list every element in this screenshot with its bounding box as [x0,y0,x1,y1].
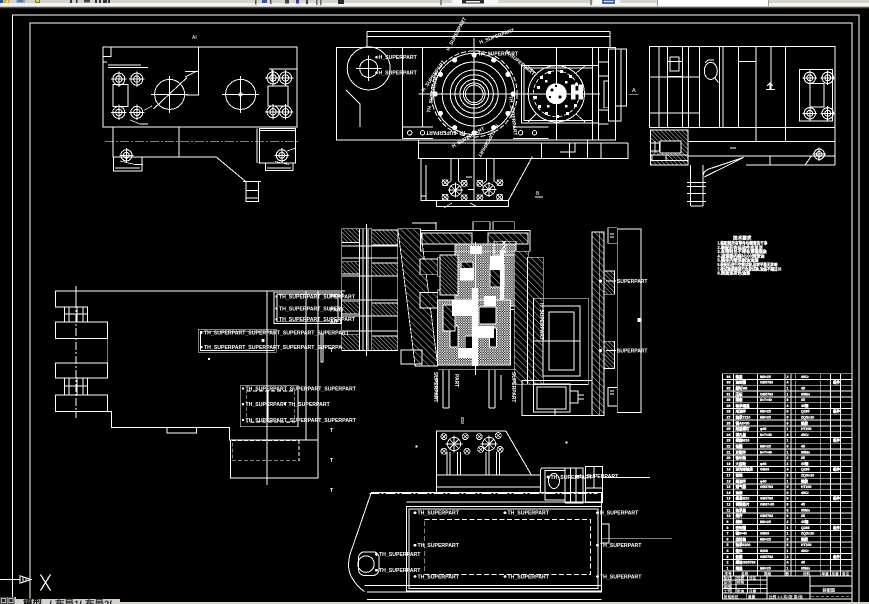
view C lower leg with fillet [687,157,744,206]
svg-text:/: / [109,600,112,604]
svg-text:AR T: AR T [330,320,343,326]
svg-text:M8×25: M8×25 [760,416,771,420]
svg-text:65Mn: 65Mn [801,508,810,512]
view C right bolt block [800,69,835,121]
view B central worm flange [419,38,531,150]
svg-text:大齿轮: 大齿轮 [736,461,747,466]
svg-text:1: 1 [787,566,789,570]
svg-text:H_SUPERPART: H_SUPERPART [580,474,619,480]
svg-text:40Cr: 40Cr [801,491,809,495]
view C: top-right side view [649,47,835,142]
bottom layout tab bar fragment [0,597,869,604]
svg-text:深沟球轴承: 深沟球轴承 [736,467,754,472]
svg-text:TH_SUPERPART: TH_SUPERPART [418,574,460,580]
svg-text:HT200: HT200 [801,543,812,547]
view B: top-middle gearbox top view [337,32,616,141]
svg-text:/: / [49,600,52,604]
toolbar icon fragments [0,0,3,3]
svg-text:数: 数 [785,571,790,576]
svg-text:8: 8 [787,508,789,512]
view E breather valve on top [494,241,516,255]
svg-text:1: 1 [787,392,789,396]
view D comb castellated profile [56,291,77,307]
svg-text:65Mn: 65Mn [801,392,810,396]
svg-text:套筒: 套筒 [736,473,744,478]
svg-text:SUPERPART: SUPERPART [510,372,516,402]
view B right worm-wheel chamber [516,48,600,140]
svg-text:TH_SUPERPART_SUPERPART: TH_SUPERPART_SUPERPART [279,317,356,323]
svg-text:组件: 组件 [833,380,841,385]
svg-text:2: 2 [787,555,789,559]
svg-text:8: 8 [787,497,789,501]
view G bracket legs [447,452,500,475]
svg-text:33: 33 [727,381,731,385]
svg-text:布局2: 布局2 [84,598,109,604]
svg-text:35: 35 [801,456,805,460]
view B internal left edge [422,48,424,127]
svg-text:视孔盖: 视孔盖 [736,432,747,437]
view D lower right chamber [230,440,318,478]
svg-text:阶段标记: 阶段标记 [724,594,739,599]
svg-text:35: 35 [801,398,805,402]
svg-text:8: 8 [787,398,789,402]
svg-text:H_SUPERPART: H_SUPERPART [600,511,639,517]
svg-text:比例 1:2 共1张 第1张: 比例 1:2 共1张 第1张 [769,594,803,599]
svg-text:14: 14 [727,491,731,495]
view G mid band [437,475,541,493]
svg-text:6208: 6208 [760,549,768,553]
svg-text:M8×25: M8×25 [760,566,771,570]
view B right end cap [593,47,627,140]
view E vertical labels SUPERPART [432,303,544,402]
svg-text:材料: 材料 [802,571,811,576]
view A top-left notch [103,47,111,62]
svg-text:8: 8 [787,543,789,547]
svg-text:4: 4 [787,433,789,437]
view A bolt holes left (4x target circles) [111,71,152,124]
view C internal horizontals [649,62,755,113]
svg-text:16: 16 [727,479,731,483]
svg-text:油封圈: 油封圈 [736,380,747,385]
view A large bore circle 1 [155,79,185,109]
svg-text:4: 4 [787,381,789,385]
svg-text:蜗杆: 蜗杆 [736,513,744,518]
svg-text:轴承7210: 轴承7210 [736,415,751,420]
view A left bolt group spacer rect [113,85,128,107]
view B lower mounting bracket [421,150,532,206]
svg-text:总重: 总重 [832,571,840,576]
svg-text:1: 1 [787,532,789,536]
svg-text:6: 6 [787,421,789,425]
view D top edge [56,290,345,292]
svg-text:螺母M10: 螺母M10 [736,496,750,501]
svg-text:调整垫片: 调整垫片 [736,502,750,507]
svg-text:GB5783: GB5783 [760,497,773,501]
svg-text:重量: 重量 [748,594,756,599]
view C small oval plug [704,62,717,79]
svg-text:压板: 压板 [736,391,744,396]
svg-text:轴承端盖: 轴承端盖 [736,403,750,408]
technical notes text block [717,235,782,277]
svg-text:18: 18 [727,468,731,472]
view B bottom shelf band [418,140,628,158]
svg-text:8×7×40: 8×7×40 [760,398,772,402]
tab nav buttons [1,598,7,604]
svg-text:6: 6 [787,416,789,420]
svg-text:1: 1 [727,566,729,570]
svg-text:单重: 单重 [822,571,830,576]
svg-text:/: / [79,600,82,604]
svg-text:1: 1 [787,427,789,431]
svg-text:B: B [461,420,464,425]
view G top bolt bracket (trapezoid) [437,431,532,475]
svg-text:TH_SUPERPART: TH_SUPERPART [379,568,421,574]
svg-text:垫圈: 垫圈 [736,554,744,559]
svg-text:2: 2 [787,462,789,466]
svg-text:22: 22 [727,445,731,449]
svg-text:齿轮轴: 齿轮轴 [736,536,747,541]
view E sloped hatched housing wall [398,229,438,366]
svg-text:21: 21 [727,450,731,454]
svg-text:箱体: 箱体 [736,548,744,553]
view A band centerline [105,141,300,143]
svg-text:8: 8 [727,526,729,530]
svg-text:起盖螺钉: 起盖螺钉 [735,426,750,431]
svg-text:9: 9 [727,520,729,524]
svg-text:6: 6 [787,485,789,489]
svg-text:6: 6 [787,445,789,449]
svg-text:M8×25: M8×25 [760,375,771,379]
svg-text:M8×25: M8×25 [760,410,771,414]
svg-text:组件: 组件 [833,496,841,501]
svg-text:29: 29 [727,404,731,408]
svg-text:45钢: 45钢 [801,461,809,466]
view D comb centerline [75,286,77,418]
view A: top-left end plate [103,35,297,127]
view B section arrow A [629,88,638,94]
svg-text:TH_SUPERPART: TH_SUPERPART [600,574,642,580]
view A small leader marks left group [130,106,152,124]
svg-text:箱盖: 箱盖 [736,374,744,379]
svg-text:34: 34 [727,375,731,379]
view B bottom flange strip with holes [402,127,548,139]
svg-text:26: 26 [727,421,731,425]
svg-text:HT200: HT200 [801,427,812,431]
svg-text:审核: 审核 [724,584,732,589]
svg-text:PART: PART [453,374,459,387]
svg-text:轴承盖: 轴承盖 [736,507,747,512]
model tab text top [23,598,112,604]
svg-text:12: 12 [727,503,731,507]
view C internal verticals [659,47,786,142]
svg-text:8.表面涂灰色油漆: 8.表面涂灰色油漆 [717,270,751,277]
svg-text:GB93: GB93 [760,532,769,536]
svg-text:AI: AI [192,35,197,41]
svg-text:ZQSn10: ZQSn10 [801,532,814,536]
view A band bolt circle left [121,150,132,161]
svg-text:8: 8 [787,537,789,541]
svg-text:1: 1 [787,549,789,553]
svg-text:1: 1 [787,450,789,454]
view G right oval bracket [541,467,603,503]
svg-text:橡胶: 橡胶 [800,536,809,541]
svg-text:φ40: φ40 [760,462,766,466]
svg-text:日期: 日期 [749,588,757,593]
view G horizontal centerline [370,493,598,495]
svg-text:45: 45 [801,503,805,507]
svg-text:批准: 批准 [737,588,745,593]
view C datum mark [766,83,775,90]
svg-text:TH_SUPERPART_SUPERPART_SUPERPA: TH_SUPERPART_SUPERPART_SUPERPART [246,418,357,424]
svg-text:24: 24 [727,433,731,437]
view C main outline [649,47,835,128]
svg-text:19: 19 [727,462,731,466]
svg-text:螺钉M6: 螺钉M6 [736,386,748,391]
svg-text:输出轴: 输出轴 [736,455,747,460]
view E left edge texts (cut labels) [330,294,345,495]
svg-text:2: 2 [727,561,729,565]
view D right verticals [267,291,318,485]
title block [723,576,852,599]
view A main outline [103,47,297,127]
view A circle1 diameter leader [154,78,187,109]
svg-text:处数: 处数 [736,575,745,580]
view A inner step line [186,47,199,95]
svg-text:H_SUPERPART: H_SUPERPART [538,303,544,340]
view G bracket label [547,474,650,481]
svg-text:TH_SUPERPART_SUPERPART_SUPERPA: TH_SUPERPART_SUPERPART_SUPERPART_SUPERPA… [204,331,350,337]
view D callout group B [198,329,276,352]
view E bracket labels SUPERPART [599,279,648,355]
view G right small tab [601,524,608,543]
view D callout group A [274,292,341,323]
svg-text:GB5783: GB5783 [760,392,773,396]
svg-text:轴承6208: 轴承6208 [736,542,751,547]
svg-text:布局1: 布局1 [54,598,80,604]
svg-text:2: 2 [787,474,789,478]
view E right gear chamber [533,298,588,384]
svg-text:Q235: Q235 [801,410,810,414]
svg-text:挡油环: 挡油环 [736,478,747,483]
view B boss labels H_SUPERPART [375,55,417,77]
svg-text:SUPERPART: SUPERPART [617,279,647,285]
view E upper shaft bands [420,257,527,309]
svg-text:组件: 组件 [833,525,841,530]
view G corner labels H_SUPERPART [375,511,642,581]
svg-text:4: 4 [727,549,729,553]
view B section mark B [535,191,543,197]
view A lower band outline [103,127,300,202]
svg-text:螺塞M16: 螺塞M16 [736,438,750,443]
svg-text:螺栓GB5783: 螺栓GB5783 [736,560,756,565]
view C bottom bolt circle [813,148,826,161]
view G main plate outline [349,493,672,600]
view A bolt holes right (4x target circles) [265,70,293,120]
ucs icon X axis arrow [0,576,31,583]
svg-text:28: 28 [727,410,731,414]
svg-text:65Mn: 65Mn [801,450,810,454]
view D callout group C [240,386,298,427]
svg-text:TH_SUPERPART: TH_SUPERPART [508,574,550,580]
view B section line A-A [367,32,610,48]
svg-text:TH_SUPERPART: TH_SUPERPART [426,129,466,135]
svg-text:2: 2 [787,456,789,460]
svg-text:10: 10 [727,514,731,518]
svg-text:PART: PART [330,308,345,314]
svg-text:校核: 校核 [737,580,745,585]
svg-text:端盖: 端盖 [736,565,744,570]
view A right foot block [260,129,296,164]
svg-text:40Cr: 40Cr [801,375,809,379]
svg-text:3: 3 [727,555,729,559]
svg-text:31: 31 [727,392,731,396]
svg-text:4: 4 [787,561,789,565]
view G inner rect dashed [425,519,591,574]
svg-text:8: 8 [787,514,789,518]
svg-text:分区: 分区 [749,575,757,580]
view B flange crosshair [419,93,531,95]
svg-text:M8×25: M8×25 [760,537,771,541]
svg-text:23: 23 [727,439,731,443]
svg-text:H_SUPERPART: H_SUPERPART [379,55,418,61]
svg-text:8×7×40: 8×7×40 [760,433,772,437]
svg-text:TH_SUPERPART: TH_SUPERPART [600,543,642,549]
view E right wall and brackets [592,228,641,416]
svg-text:工艺: 工艺 [724,588,732,593]
view C bottom band [649,128,835,166]
svg-text:备注: 备注 [841,571,850,576]
svg-text:GB5783: GB5783 [760,514,773,518]
svg-text:TH_SUPERPART_SUPERPART_SUPERPA: TH_SUPERPART_SUPERPART_SUPERPART [246,386,357,392]
svg-text:TH_SUPERPART TH_SUPERPART: TH_SUPERPART TH_SUPERPART [246,402,331,408]
view E bottom foot [401,350,501,408]
svg-text:GB5783: GB5783 [760,485,773,489]
svg-text:45钢: 45钢 [801,519,809,524]
svg-text:11: 11 [727,508,731,512]
svg-text:1: 1 [787,387,789,391]
svg-text:20: 20 [727,456,731,460]
view C left hatched base [650,130,687,165]
svg-text:8×7×40: 8×7×40 [760,450,772,454]
view B left round boss [347,47,390,90]
svg-text:Q235: Q235 [801,526,810,530]
svg-text:定距环: 定距环 [735,449,747,454]
svg-text:40Cr: 40Cr [801,549,809,553]
svg-text:φ40: φ40 [760,427,766,431]
svg-text:TH_SUPERPART: TH_SUPERPART [379,552,421,558]
svg-text:4: 4 [787,468,789,472]
svg-text:4: 4 [787,404,789,408]
svg-text:45: 45 [801,561,805,565]
svg-text:6: 6 [727,537,729,541]
view D bottom stepped profile [76,411,318,440]
svg-text:45钢: 45钢 [801,403,809,408]
svg-text:45: 45 [801,445,805,449]
svg-text:M8×25: M8×25 [760,520,771,524]
svg-text:Q235: Q235 [801,468,810,472]
svg-text:HT200: HT200 [801,485,812,489]
svg-text:模型: 模型 [23,598,43,604]
svg-text:1: 1 [787,439,789,443]
svg-text:8: 8 [787,503,789,507]
view B flange rotated labels [421,17,536,158]
svg-text:橡胶: 橡胶 [800,478,809,483]
view G nose circles [358,556,374,572]
ucs icon X label [41,575,51,591]
view E right hatched wall [514,251,543,384]
svg-text:25: 25 [727,427,731,431]
svg-text:SUPERPART: SUPERPART [617,349,647,355]
svg-text:油标: 油标 [736,490,744,495]
svg-text:ZQSn10: ZQSn10 [801,416,814,420]
svg-text:规格: 规格 [764,571,772,576]
view A large bore circle 2 [226,79,256,109]
view D: middle-left side section [56,286,346,485]
view B bracket bolt circles with X marks [442,177,503,208]
svg-text:45: 45 [801,387,805,391]
svg-text:ZQSn10: ZQSn10 [801,474,814,478]
view B flange bolt ring (12 bolts) [433,52,516,135]
svg-text:30: 30 [727,398,731,402]
view B worm center splash [546,83,567,104]
svg-text:40Cr: 40Cr [801,433,809,437]
svg-text:GB5783: GB5783 [760,555,773,559]
svg-text:TH_SUPERPART_SUPERPART_SUPERPA: TH_SUPERPART_SUPERPART_SUPERPART_SUPERPA… [204,345,350,351]
view A left foot block [114,157,142,171]
svg-text:GB93: GB93 [760,468,769,472]
svg-text:6: 6 [787,491,789,495]
svg-text:8: 8 [787,410,789,414]
view E top cover band [412,222,530,251]
svg-text:蜗轮: 蜗轮 [736,519,744,524]
stray leader dots [208,358,568,448]
svg-text:1: 1 [787,526,789,530]
svg-text:H_SUPERPART: H_SUPERPART [379,71,418,77]
svg-text:35: 35 [801,514,805,518]
view E comb white gap blocks [360,229,372,351]
svg-text:15: 15 [727,485,731,489]
svg-text:TH_SUPERPART: TH_SUPERPART [418,511,460,517]
svg-text:27: 27 [727,416,731,420]
svg-text:φ40: φ40 [760,479,766,483]
svg-text:17: 17 [727,474,731,478]
svg-text:通气器: 通气器 [736,484,747,489]
svg-text:隔套: 隔套 [736,397,744,402]
svg-text:7: 7 [727,532,729,536]
view E left labyrinth comb (hatched) [342,224,398,356]
svg-text:TH_SUPERPART_SUPERPART: TH_SUPERPART_SUPERPART [279,294,356,300]
view A band bolt circle right [276,150,287,161]
svg-text:标记: 标记 [723,575,732,580]
svg-text:键8×40: 键8×40 [735,531,747,536]
svg-text:13: 13 [727,497,731,501]
svg-text:GB97-85: GB97-85 [760,503,774,507]
view E bottom motor block [522,380,592,415]
svg-text:甩油环: 甩油环 [735,409,747,414]
view B main body outline [337,47,616,140]
svg-text:设计: 设计 [724,580,732,585]
svg-text:组件: 组件 [833,409,841,414]
svg-text:GB5783: GB5783 [760,381,773,385]
svg-text:组件: 组件 [833,554,841,559]
svg-text:32: 32 [727,387,731,391]
svg-text:TH_SUPERPART: TH_SUPERPART [418,543,460,549]
view G inner rect solid [406,507,601,592]
svg-text:PART: PART [330,294,345,300]
view G bottom line [367,599,601,601]
svg-text:A: A [632,88,636,94]
svg-text:密封圈: 密封圈 [735,525,747,530]
